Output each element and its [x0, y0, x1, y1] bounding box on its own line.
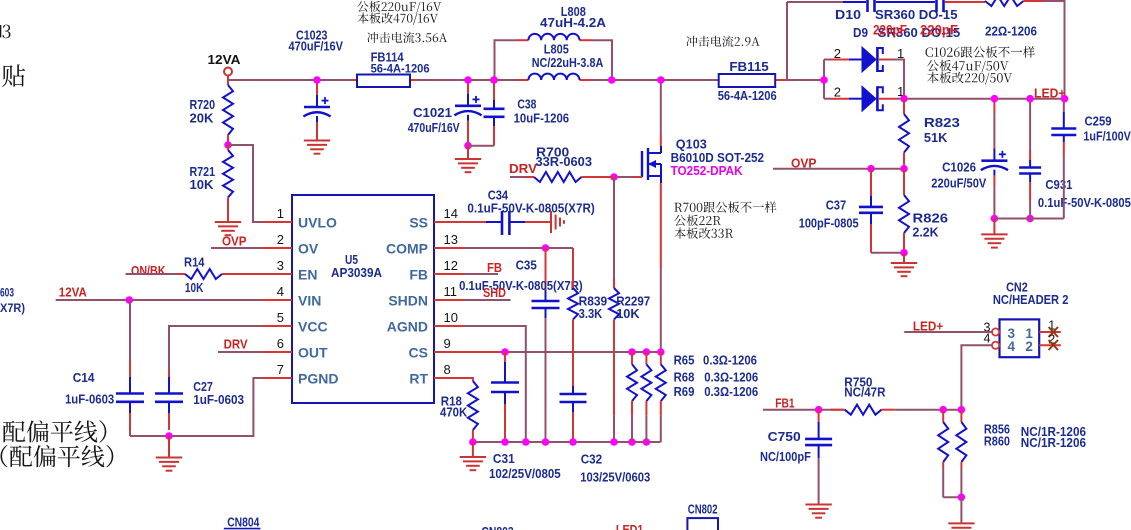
- svg-text:NC/47R: NC/47R: [844, 384, 886, 399]
- diode D9: [824, 98, 830, 100]
- annotation 本板改33R: [674, 227, 733, 238]
- svg-text:COMP: COMP: [386, 241, 428, 257]
- svg-text:NC/22uH-3.8A: NC/22uH-3.8A: [532, 56, 604, 70]
- CN2 pin2 no-connect X: [1049, 340, 1058, 350]
- resistor R860: [960, 410, 962, 422]
- wire FB stub: [464, 273, 498, 275]
- svg-text:C35: C35: [516, 258, 537, 273]
- ground below C1026: [993, 219, 995, 235]
- svg-text:6: 6: [277, 336, 284, 351]
- wire rail FB115 to diode node: [775, 79, 786, 81]
- capacitor C750: [818, 409, 820, 422]
- svg-text:470K: 470K: [440, 406, 467, 420]
- svg-text:R14: R14: [184, 254, 205, 269]
- svg-text:ON/BK: ON/BK: [131, 263, 166, 278]
- svg-text:1uF-0603: 1uF-0603: [65, 393, 114, 407]
- svg-text:0.1uF-50V-K-0805: 0.1uF-50V-K-0805: [1038, 196, 1131, 210]
- svg-text:NC/1R-1206: NC/1R-1206: [1021, 435, 1086, 450]
- svg-text:220pF: 220pF: [920, 22, 958, 37]
- wire Q103 source down: [660, 183, 662, 268]
- resistor R2297: [613, 177, 615, 278]
- wire diode anode vertical: [823, 60, 825, 99]
- capacitor C27: [168, 370, 170, 377]
- svg-text:VCC: VCC: [298, 319, 328, 335]
- svg-text:CN802: CN802: [688, 501, 718, 516]
- annotation 公板22R: [674, 215, 721, 226]
- svg-text:12VA: 12VA: [59, 286, 87, 300]
- svg-text:12: 12: [444, 258, 458, 273]
- svg-text:10K: 10K: [190, 177, 215, 192]
- annotation 公板47uF/50V: [927, 60, 1009, 73]
- resistor R14: [178, 273, 185, 275]
- wire to pin1 UVLO: [228, 145, 262, 222]
- svg-text:C31: C31: [493, 451, 515, 466]
- svg-text:22Ω-1206: 22Ω-1206: [985, 24, 1037, 39]
- pin 9 CS: [434, 351, 464, 353]
- resistor R856: [942, 410, 944, 422]
- svg-text:VIN: VIN: [298, 293, 321, 309]
- svg-text:R860: R860: [984, 433, 1010, 448]
- svg-text:100pF-0805: 100pF-0805: [799, 217, 859, 231]
- capacitor C32: [560, 393, 587, 396]
- capacitor C1023: [227, 79, 229, 81]
- svg-text:0.3Ω-1206: 0.3Ω-1206: [703, 352, 757, 367]
- wire bottom ground rail: [473, 441, 661, 443]
- svg-text:0.1uF-50V-K-0805(X7R): 0.1uF-50V-K-0805(X7R): [459, 279, 583, 293]
- pin 11 SHDN: [434, 299, 464, 301]
- svg-text:2: 2: [834, 85, 841, 100]
- svg-text:C14: C14: [73, 370, 95, 385]
- svg-text:20K: 20K: [190, 111, 215, 126]
- svg-text:X7R): X7R): [0, 301, 25, 315]
- ground below R721: [215, 221, 241, 223]
- wire 12VA to VIN: [56, 299, 262, 301]
- resistor R65: [628, 348, 636, 356]
- wire R856/R860 top rail: [943, 409, 961, 411]
- ground below C750: [805, 504, 831, 506]
- svg-text:OV: OV: [298, 241, 319, 257]
- resistor R721: [227, 145, 229, 150]
- wire R856/R860 bottom join: [943, 496, 961, 498]
- svg-text:C1026: C1026: [942, 160, 976, 175]
- diode D10: [824, 59, 830, 61]
- wire FB1: [763, 409, 844, 411]
- svg-text:C931: C931: [1045, 177, 1072, 192]
- svg-text:EN: EN: [298, 267, 317, 283]
- svg-text:UVLO: UVLO: [298, 215, 337, 231]
- ground below C1023: [304, 140, 330, 142]
- wire VCC to C27: [169, 326, 262, 394]
- CN2 pin 2 stub: [1039, 344, 1061, 346]
- annotation 公板220uF/16V: [357, 1, 441, 13]
- annotation 本板改220/50V: [927, 72, 1012, 85]
- ferrite bead FB115: [719, 74, 776, 87]
- svg-text:10K: 10K: [616, 306, 640, 321]
- svg-text:L805: L805: [544, 42, 569, 57]
- resistor R68: [643, 348, 651, 356]
- svg-text:7: 7: [277, 362, 284, 377]
- svg-text:FB115: FB115: [729, 59, 768, 74]
- inductor L805: [517, 79, 528, 81]
- wire main 12V rail left: [228, 79, 357, 81]
- wire snubber branch: [787, 1, 843, 3]
- svg-text:FB1: FB1: [775, 396, 794, 411]
- wire CS rail: [464, 351, 505, 353]
- node R720/R721: [224, 141, 232, 149]
- pin 10 AGND: [434, 325, 464, 327]
- annotation （配偏平线）: [1, 445, 114, 468]
- svg-text:220pF: 220pF: [873, 22, 907, 37]
- svg-text:220uF/50V: 220uF/50V: [931, 177, 987, 191]
- resistor R69: [657, 348, 665, 356]
- wire LED+ to CN2 pin3: [904, 331, 992, 333]
- pin 5 VCC: [262, 325, 292, 327]
- svg-text:8: 8: [444, 362, 451, 377]
- junction C1021/C38 bottom: [464, 142, 472, 150]
- wire C37/R826 bottom: [871, 252, 904, 254]
- svg-text:2: 2: [834, 46, 841, 61]
- wire SS to C34: [464, 221, 486, 223]
- svg-text:56-4A-1206: 56-4A-1206: [371, 62, 430, 76]
- svg-text:3.3K: 3.3K: [579, 306, 603, 321]
- annotation R700跟公板不一样: [674, 201, 776, 212]
- capacitor C34: [486, 221, 502, 223]
- junction L branch left: [490, 76, 498, 84]
- wire SHDN stub: [464, 299, 511, 301]
- resistor R750: [831, 409, 845, 411]
- svg-text:4: 4: [984, 332, 991, 346]
- ground below R826: [903, 253, 905, 263]
- svg-text:CS: CS: [409, 345, 428, 361]
- junction C14 tap: [126, 296, 134, 304]
- resistor R18: [468, 381, 478, 430]
- pin 14 SS: [434, 221, 464, 223]
- svg-text:C37: C37: [826, 198, 847, 213]
- svg-text:47uH-4.2A: 47uH-4.2A: [540, 16, 606, 30]
- svg-text:D9: D9: [853, 25, 868, 40]
- capacitor C931: [1029, 99, 1031, 150]
- svg-text:C27: C27: [193, 379, 213, 394]
- svg-text:R69: R69: [674, 384, 695, 399]
- svg-text:LED1: LED1: [616, 522, 644, 530]
- annotation C1026跟公板不一样: [926, 46, 1035, 58]
- svg-text:PGND: PGND: [298, 371, 338, 387]
- resistor R700: [526, 176, 534, 178]
- svg-text:C34: C34: [488, 188, 509, 203]
- svg-text:C32: C32: [581, 452, 602, 467]
- wire RT to R18: [464, 378, 473, 381]
- junction C27 bottom: [165, 432, 173, 440]
- wire ON/BK: [126, 273, 185, 275]
- svg-text:NC/100pF: NC/100pF: [760, 449, 811, 464]
- svg-text:51K: 51K: [924, 130, 948, 145]
- annotation 本板改470/16V: [358, 13, 439, 25]
- annotation 贴: [2, 64, 25, 87]
- wire COMP node: [464, 247, 573, 249]
- ground below C1021: [467, 146, 469, 159]
- pin 2 OV: [262, 247, 292, 249]
- capacitor snubber C (right) 220pF: [935, 0, 938, 12]
- pin 12 FB: [434, 273, 464, 275]
- svg-text:470uF/16V: 470uF/16V: [408, 121, 461, 135]
- svg-text:10: 10: [444, 310, 458, 325]
- svg-text:1uF-0603: 1uF-0603: [193, 393, 244, 407]
- svg-text:C750: C750: [768, 429, 801, 444]
- svg-text:R65: R65: [674, 352, 695, 367]
- wire DRV stub: [218, 351, 262, 353]
- svg-text:103/25V/0603: 103/25V/0603: [580, 470, 650, 484]
- resistor R720: [227, 80, 229, 85]
- svg-text:10K: 10K: [185, 280, 204, 295]
- resistor R823: [903, 99, 905, 114]
- capacitor snubber C (left) 220pF: [866, 0, 869, 12]
- svg-text:DRV: DRV: [509, 161, 537, 176]
- svg-text:D10: D10: [835, 7, 861, 22]
- svg-text:SHDN: SHDN: [388, 293, 428, 309]
- svg-text:3: 3: [277, 258, 284, 273]
- op-amp U5 AP3039A IC body: [292, 195, 434, 403]
- CN2 pin 3 circle: [992, 328, 999, 335]
- svg-text:DRV: DRV: [224, 336, 248, 351]
- svg-text:470uF/16V: 470uF/16V: [289, 40, 344, 54]
- junction L branch right: [608, 76, 616, 84]
- svg-text:C38: C38: [517, 97, 536, 112]
- svg-text:13: 13: [444, 232, 458, 247]
- svg-text:R68: R68: [674, 370, 695, 385]
- svg-text:SR360 DO-15: SR360 DO-15: [875, 7, 958, 22]
- svg-text:FB: FB: [487, 260, 502, 275]
- resistor R839: [572, 248, 574, 288]
- svg-text:10uF-1206: 10uF-1206: [514, 112, 570, 126]
- svg-text:OUT: OUT: [298, 345, 328, 361]
- svg-text:0.3Ω-1206: 0.3Ω-1206: [704, 384, 758, 399]
- svg-text:56-4A-1206: 56-4A-1206: [718, 89, 777, 103]
- pin 8 RT: [434, 377, 464, 379]
- svg-text:AP3039A: AP3039A: [331, 266, 382, 280]
- svg-text:14: 14: [444, 206, 458, 221]
- svg-text:CN803: CN803: [481, 524, 513, 530]
- svg-text:4: 4: [277, 284, 284, 299]
- svg-text:12VA: 12VA: [208, 53, 241, 67]
- svg-text:OVP: OVP: [222, 234, 247, 249]
- capacitor C14: [128, 299, 131, 301]
- wire inductor branch up: [495, 40, 518, 80]
- svg-text:1: 1: [897, 46, 904, 61]
- svg-text:0.1uF-50V-K-0805(X7R): 0.1uF-50V-K-0805(X7R): [467, 202, 594, 216]
- svg-text:R823: R823: [924, 115, 960, 130]
- capacitor C1026: [993, 99, 995, 113]
- ground below R860 (clipped): [948, 522, 974, 524]
- pin 4 VIN: [262, 299, 292, 301]
- svg-text:5: 5: [277, 310, 284, 325]
- capacitor C259: [1063, 99, 1065, 112]
- svg-text:1uF/100V: 1uF/100V: [1083, 129, 1131, 143]
- svg-text:603: 603: [0, 286, 14, 300]
- wire PGND down: [130, 378, 262, 436]
- pin 6 OUT: [262, 351, 292, 353]
- svg-text:0.3Ω-1206: 0.3Ω-1206: [704, 370, 758, 385]
- svg-text:4: 4: [1008, 339, 1016, 354]
- wire CN2 pin4 down: [961, 345, 992, 409]
- svg-text:2.2K: 2.2K: [913, 224, 940, 239]
- svg-text:SHD: SHD: [483, 285, 506, 300]
- wire to snubber resistor: [945, 1, 985, 3]
- svg-text:2: 2: [1025, 339, 1033, 354]
- svg-text:C259: C259: [1085, 114, 1112, 129]
- wire AGND down: [464, 326, 526, 442]
- svg-text:CN804: CN804: [227, 515, 260, 530]
- svg-text:FB: FB: [409, 267, 428, 283]
- pin 13 COMP: [434, 247, 464, 249]
- svg-text:2: 2: [277, 232, 284, 247]
- inductor L808: [517, 39, 528, 41]
- wire rail FB114 to FB115: [410, 79, 528, 81]
- ferrite bead FB114: [351, 79, 357, 81]
- svg-text:102/25V/0805: 102/25V/0805: [489, 467, 561, 481]
- wire D10 cathode to LED node: [890, 60, 904, 99]
- svg-text:SS: SS: [409, 215, 428, 231]
- annotation 配偏平线）: [3, 420, 106, 443]
- resistor snubber 22R: [985, 0, 1024, 6]
- ground below C14/C27 rail: [168, 436, 170, 458]
- wire Q103 drain: [660, 80, 662, 134]
- wire C1026/C931/C259 bottom rail: [994, 218, 1063, 220]
- svg-text:11: 11: [444, 284, 458, 299]
- capacitor C1021: [467, 81, 469, 94]
- pin 7 PGND: [262, 377, 292, 379]
- CN2 pin 1 stub: [1039, 331, 1061, 333]
- svg-text:9: 9: [444, 336, 451, 351]
- svg-text:U5: U5: [345, 252, 358, 267]
- wire snubber to LED+ node: [1024, 0, 1044, 2]
- svg-text:RT: RT: [409, 371, 428, 387]
- wire between snubber caps: [876, 1, 935, 3]
- svg-text:NC/HEADER 2: NC/HEADER 2: [993, 292, 1069, 307]
- annotation 冲击电流2.9A: [686, 36, 759, 47]
- pin 1 UVLO: [262, 221, 292, 223]
- capacitor C35: [545, 248, 547, 290]
- capacitor C38: [493, 81, 495, 100]
- capacitor C37: [870, 169, 872, 196]
- CN2 pin1 no-connect X: [1049, 327, 1058, 337]
- connector CN802 body (clipped): [687, 518, 718, 530]
- pin 3 EN: [262, 273, 292, 275]
- ground below bottom rail: [472, 442, 474, 457]
- junction C1026 bottom: [991, 215, 999, 223]
- connector CN2 body: [1000, 319, 1040, 357]
- transistor Q103 MOSFET: [641, 151, 643, 177]
- wire OVP: [773, 168, 904, 170]
- wire Q103 gate: [614, 176, 634, 178]
- ground (rotated) after C34: [550, 211, 552, 233]
- svg-text:33R-0603: 33R-0603: [536, 155, 593, 169]
- junction C1023 rail: [313, 76, 321, 84]
- svg-text:TO252-DPAK: TO252-DPAK: [671, 163, 744, 178]
- resistor R826: [903, 169, 905, 195]
- annotation 冲击电流3.56A: [367, 32, 447, 43]
- svg-text:C1021: C1021: [413, 105, 452, 120]
- svg-text:1: 1: [277, 206, 284, 221]
- wire LED+ rail: [904, 98, 1065, 100]
- wire DRV to R700: [510, 176, 534, 178]
- partial char 3 (left edge): [2, 25, 10, 39]
- capacitor C31: [501, 348, 509, 356]
- CN2 pin 4 circle: [992, 342, 999, 349]
- svg-text:AGND: AGND: [387, 319, 428, 335]
